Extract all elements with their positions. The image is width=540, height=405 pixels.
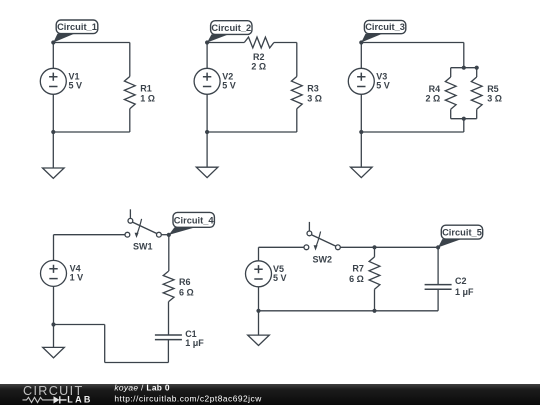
ground xyxy=(43,347,65,357)
wire xyxy=(129,209,131,218)
node c5 R7 bottom xyxy=(372,309,376,313)
label bubble Circuit_4 xyxy=(169,227,196,235)
voltage source V4 xyxy=(41,260,67,286)
ground xyxy=(196,167,218,177)
node c4 bottom xyxy=(51,322,55,326)
svg-text:1 μF: 1 μF xyxy=(185,338,204,348)
wire down to parallel pair xyxy=(463,43,465,68)
node c5 bottom xyxy=(256,309,260,313)
resistor R3 xyxy=(291,77,302,109)
svg-text:LAB: LAB xyxy=(67,394,92,404)
label bubble Circuit_3 xyxy=(361,34,382,43)
wire ground lead c2 xyxy=(206,132,208,167)
wire top rail c2 left xyxy=(207,42,244,44)
wire C2 bottom lead xyxy=(437,289,439,311)
switch SW2 terminals xyxy=(304,245,309,250)
resistor R6 xyxy=(163,271,174,302)
svg-text:3 Ω: 3 Ω xyxy=(487,94,502,104)
wire ground lead c1 xyxy=(52,132,54,168)
resistor R1 xyxy=(124,77,135,109)
node c4 junction xyxy=(167,233,171,237)
resistor R2 xyxy=(244,37,274,48)
node bar bottom junction xyxy=(462,117,466,121)
wire V2 bottom lead xyxy=(206,94,208,132)
wire top rail c5 left xyxy=(259,246,304,248)
wire ground lead c4 xyxy=(53,325,55,348)
svg-text:5 V: 5 V xyxy=(222,80,236,90)
svg-text:R5: R5 xyxy=(487,84,499,94)
wire R5 bottom lead xyxy=(476,109,478,118)
ground xyxy=(43,168,65,178)
node bar top right xyxy=(475,66,479,70)
wire R4 top lead xyxy=(450,68,452,77)
wire bottom rail c2 xyxy=(207,131,297,133)
svg-text:koyae / Lab 0: koyae / Lab 0 xyxy=(114,383,170,393)
wire top bar R4R5 xyxy=(451,67,477,69)
svg-text:R3: R3 xyxy=(307,84,319,94)
wire bottom rail c1 xyxy=(53,131,130,133)
voltage source V3 xyxy=(348,68,374,94)
svg-text:3 Ω: 3 Ω xyxy=(307,93,322,103)
wire V5 bottom lead xyxy=(258,287,260,311)
svg-text:1 μF: 1 μF xyxy=(455,287,474,297)
svg-text:5 V: 5 V xyxy=(376,80,390,90)
wire xyxy=(308,222,310,231)
node c2 top xyxy=(205,40,209,44)
wire R1 bottom lead xyxy=(129,109,131,132)
svg-text:Circuit_3: Circuit_3 xyxy=(365,22,405,32)
wire V2 top lead xyxy=(206,43,208,69)
wire R1 top lead xyxy=(129,43,131,77)
switch SW1 lever xyxy=(132,222,157,234)
svg-text:R4: R4 xyxy=(429,84,441,94)
capacitor C1 xyxy=(155,335,182,340)
wire node to C2 branch xyxy=(375,246,439,248)
wire R3 bottom lead xyxy=(296,109,298,132)
svg-text:C2: C2 xyxy=(455,276,467,286)
wire V5 top lead xyxy=(258,247,260,260)
node c1 top xyxy=(51,40,55,44)
node c5 C2 top xyxy=(436,245,440,249)
svg-text:2 Ω: 2 Ω xyxy=(251,61,266,71)
resistor R5 xyxy=(471,77,482,109)
wire ground lead c3 xyxy=(360,132,362,167)
node bar top junction xyxy=(462,66,466,70)
wire bottom run c4 xyxy=(105,362,169,364)
node c3 bottom xyxy=(359,130,363,134)
label bubble Circuit_2 xyxy=(207,34,228,42)
wire bottom bar R4R5 xyxy=(451,118,477,120)
wire up segment c4 xyxy=(104,325,106,363)
voltage source V1 xyxy=(40,68,66,94)
voltage source V5 xyxy=(246,261,272,287)
ground xyxy=(248,335,270,345)
label bubble Circuit_1 xyxy=(53,34,74,43)
wire R4 bottom lead xyxy=(450,109,452,118)
svg-text:1 Ω: 1 Ω xyxy=(140,93,155,103)
wire top rail c2 right xyxy=(274,42,297,44)
svg-text:R6: R6 xyxy=(179,277,191,287)
switch SW1 terminals xyxy=(125,232,130,237)
node c2 bottom xyxy=(205,130,209,134)
svg-text:Circuit_2: Circuit_2 xyxy=(211,23,251,33)
node c3 top xyxy=(359,40,363,44)
svg-text:5 V: 5 V xyxy=(273,273,287,283)
switch SW1 motion arrow xyxy=(137,219,141,233)
wire top rail c1 xyxy=(53,42,130,44)
wire down to R6 xyxy=(168,235,170,271)
svg-text:SW1: SW1 xyxy=(133,242,153,252)
wire top rail c4 xyxy=(54,234,125,236)
voltage source V2 xyxy=(194,68,220,94)
svg-text:http://circuitlab.com/c2pt8ac6: http://circuitlab.com/c2pt8ac692jcw xyxy=(114,394,262,404)
wire R6 to C1 xyxy=(168,302,170,335)
resistor R7 xyxy=(369,257,380,289)
wire V3 bottom lead xyxy=(360,94,362,132)
wire R7 top lead xyxy=(374,247,376,257)
wire C2 top lead xyxy=(437,247,439,284)
wire switch to R7 node xyxy=(340,246,374,248)
svg-text:1 V: 1 V xyxy=(70,273,84,283)
switch SW2 motion arrow xyxy=(316,232,320,246)
wire V4 bottom lead xyxy=(53,286,55,324)
node c5 R7 top xyxy=(372,245,376,249)
wire R7 bottom lead xyxy=(374,289,376,311)
wire bottom rail c5 xyxy=(259,310,439,312)
svg-text:Circuit_1: Circuit_1 xyxy=(57,22,97,32)
svg-text:2 Ω: 2 Ω xyxy=(425,94,440,104)
svg-text:SW2: SW2 xyxy=(313,255,333,265)
wire bottom rail c3 xyxy=(361,131,464,133)
wire V1 top lead xyxy=(52,43,54,69)
wire V3 top lead xyxy=(360,43,362,69)
capacitor C2 xyxy=(425,285,452,290)
resistor R4 xyxy=(445,77,456,109)
svg-text:5 V: 5 V xyxy=(69,80,83,90)
wire down from bar xyxy=(463,119,465,132)
wire C1 bottom lead xyxy=(167,340,169,363)
svg-text:Circuit_4: Circuit_4 xyxy=(174,216,215,226)
wire ground lead c5 xyxy=(258,311,260,335)
wire bottom rail c4 xyxy=(54,324,105,326)
wire top rail c3 xyxy=(361,42,464,44)
switch SW2 lever xyxy=(311,235,336,247)
svg-text:6 Ω: 6 Ω xyxy=(179,287,194,297)
wire R3 top lead xyxy=(296,43,298,77)
svg-text:Circuit_5: Circuit_5 xyxy=(442,228,482,238)
svg-text:R7: R7 xyxy=(352,264,364,274)
node c1 bottom xyxy=(51,130,55,134)
svg-text:6 Ω: 6 Ω xyxy=(349,274,364,284)
label bubble Circuit_5 xyxy=(438,239,461,247)
svg-text:R1: R1 xyxy=(140,84,152,94)
wire V4 top lead xyxy=(53,235,55,261)
wire switch to node xyxy=(161,234,169,236)
wire V1 bottom lead xyxy=(52,94,54,132)
wire R5 top lead xyxy=(476,68,478,77)
ground xyxy=(351,167,373,177)
logo resistor squiggle and diode xyxy=(23,397,54,402)
